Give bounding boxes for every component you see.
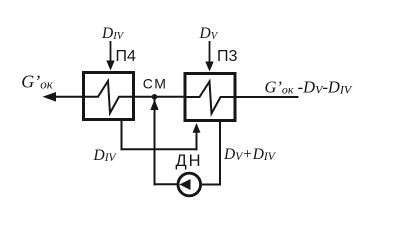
steam arrow shaft into P3 xyxy=(209,41,211,63)
svg-text:G’ок: G’ок xyxy=(21,72,54,92)
svg-text:DV+DIV: DV+DIV xyxy=(223,146,277,163)
wire: drain down from P4 xyxy=(121,120,123,150)
heater P4 zigzag tube xyxy=(85,81,133,113)
arrowhead: outlet G'ok pointing left xyxy=(43,92,57,102)
wire: pump outlet horizontal xyxy=(154,183,180,185)
wire: main line right segment xyxy=(236,96,299,98)
arrowhead: drain into P3 bottom xyxy=(193,123,201,133)
wire: drain horizontal to P3 xyxy=(121,148,198,150)
wire: drain rise into P3 xyxy=(196,132,198,150)
svg-text:G’ок -DV-DIV: G’ок -DV-DIV xyxy=(265,77,353,96)
svg-text:ДН: ДН xyxy=(176,152,203,170)
steam arrowhead into P3 xyxy=(205,62,213,72)
node SM junction dot xyxy=(152,94,158,100)
svg-text:DIV: DIV xyxy=(93,147,118,164)
wire: pump inlet horizontal xyxy=(200,184,222,186)
wire: main line between heaters xyxy=(134,96,185,98)
svg-text:П3: П3 xyxy=(217,48,238,65)
wire: pump discharge riser to SM xyxy=(154,99,156,185)
svg-text:СМ: СМ xyxy=(143,76,168,92)
pump DN triangle xyxy=(180,179,191,190)
steam arrowhead into P4 xyxy=(106,61,114,71)
svg-text:П4: П4 xyxy=(116,48,137,65)
svg-text:DV: DV xyxy=(199,25,219,42)
svg-text:DIV: DIV xyxy=(101,25,125,42)
wire: main condensate line left segment xyxy=(54,96,83,98)
steam arrow shaft into P4 xyxy=(110,41,112,62)
heater P4 box xyxy=(84,73,134,120)
pump DN circle xyxy=(178,173,201,196)
heater P3 zigzag tube xyxy=(187,82,236,114)
heater P3 box xyxy=(185,74,235,121)
arrowhead: into SM node xyxy=(150,100,158,111)
wire: drain down from P3 to pump xyxy=(219,122,221,186)
